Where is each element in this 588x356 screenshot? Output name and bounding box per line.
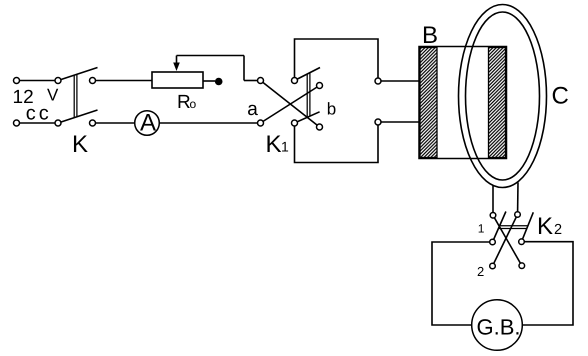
svg-text:G.B.: G.B. — [476, 314, 520, 339]
svg-text:B: B — [422, 22, 438, 49]
svg-text:1: 1 — [478, 222, 485, 236]
svg-text:K: K — [72, 131, 88, 158]
svg-text:K: K — [266, 131, 282, 158]
svg-text:1: 1 — [281, 139, 289, 155]
svg-text:o: o — [190, 97, 197, 111]
svg-text:b: b — [327, 100, 336, 119]
svg-text:2: 2 — [477, 264, 484, 279]
svg-text:2: 2 — [554, 222, 562, 238]
svg-text:cc: cc — [26, 102, 52, 124]
svg-text:a: a — [247, 99, 258, 120]
svg-text:K: K — [537, 213, 553, 240]
svg-text:A: A — [140, 110, 156, 137]
svg-text:C: C — [552, 83, 569, 110]
